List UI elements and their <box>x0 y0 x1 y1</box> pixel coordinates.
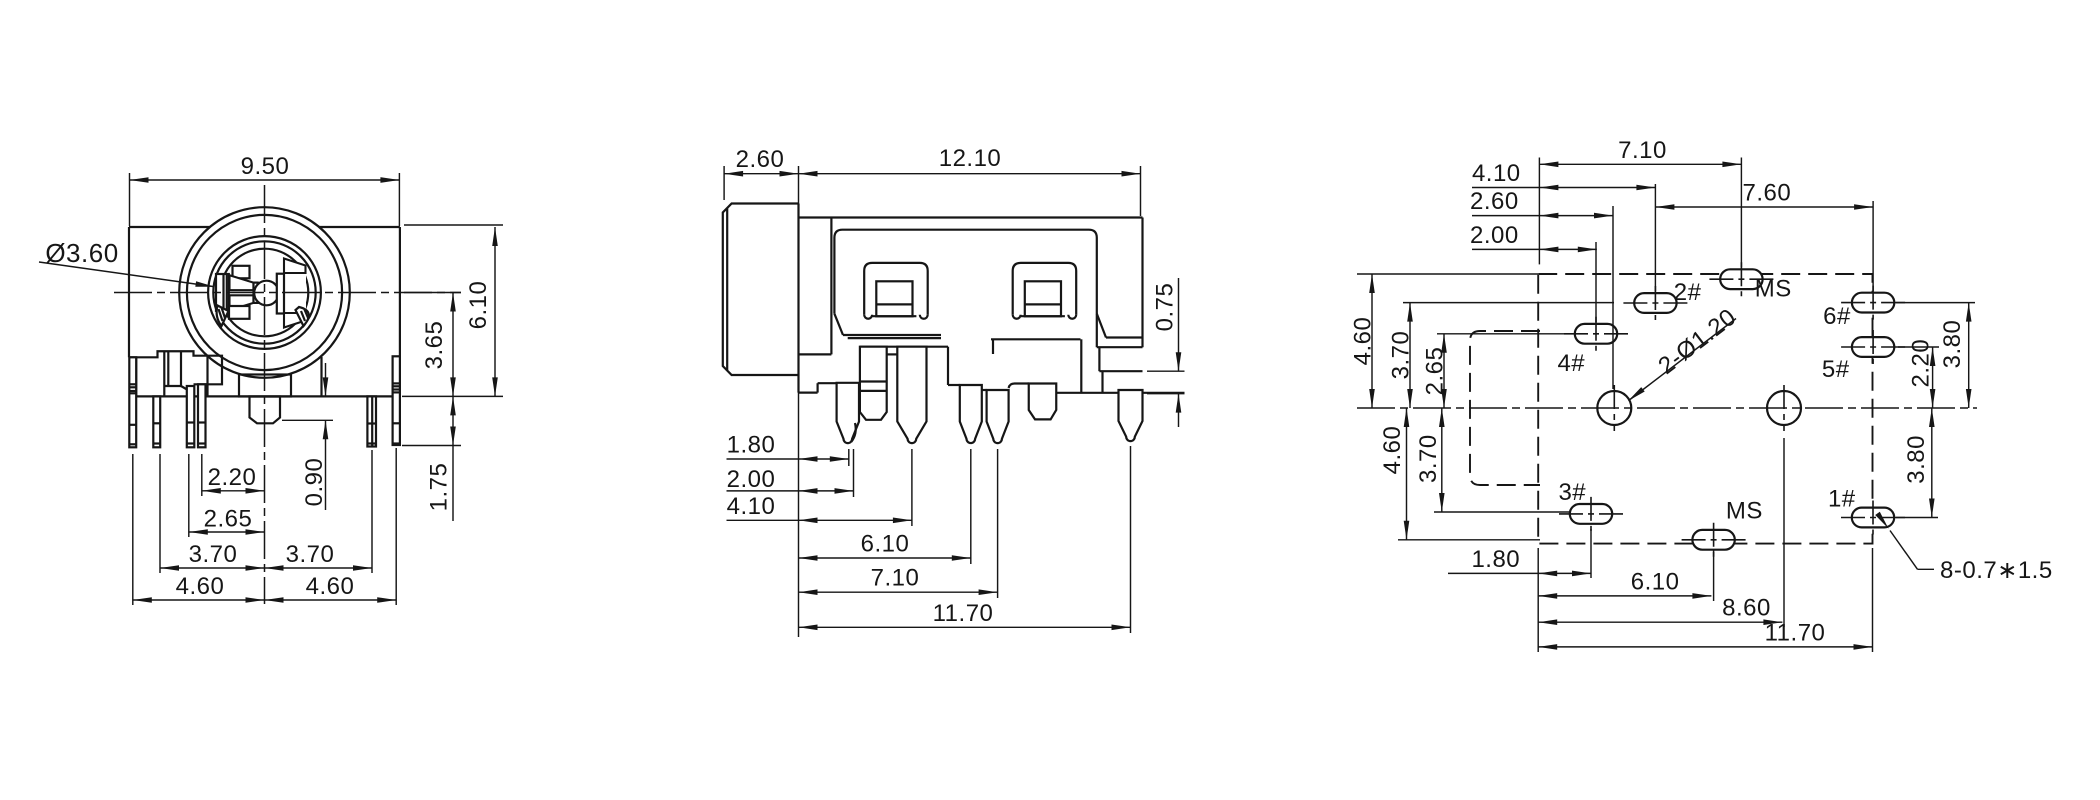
svg-text:6.10: 6.10 <box>465 281 492 330</box>
right contact upper block <box>284 259 306 274</box>
left extension lines <box>1357 273 1538 275</box>
dim 2.20 <box>1932 347 1934 408</box>
svg-text:2.20: 2.20 <box>208 464 257 491</box>
dim 3.70 left / 3.70 right <box>160 567 372 569</box>
center boss <box>239 375 291 397</box>
svg-text:3.80: 3.80 <box>1903 435 1930 484</box>
svg-text:4.60: 4.60 <box>1379 426 1406 475</box>
pad 4# <box>1575 324 1617 344</box>
pad 3# <box>1570 504 1612 524</box>
left contact upper support <box>233 266 250 279</box>
svg-text:3.70: 3.70 <box>1388 331 1415 380</box>
shield inner circle <box>187 215 342 370</box>
footprint outline (dashed) <box>1538 274 1872 544</box>
pin leg far-left <box>129 357 136 447</box>
pin leg inner-left A <box>187 386 195 447</box>
rear shoulder line <box>1056 392 1118 394</box>
svg-text:1.80: 1.80 <box>727 432 776 459</box>
pin 4 (side) <box>987 390 1009 443</box>
svg-text:MS: MS <box>1726 498 1763 525</box>
svg-text:1#: 1# <box>1828 486 1856 513</box>
left contact upper finger <box>230 275 254 290</box>
dim 6.10 (height) <box>494 227 496 396</box>
pad 6# <box>1852 293 1894 313</box>
svg-text:4.60: 4.60 <box>1350 317 1377 366</box>
svg-text:11.70: 11.70 <box>1765 619 1826 646</box>
side body outline <box>799 216 1143 218</box>
dim 2.65 <box>189 531 265 533</box>
svg-text:8.60: 8.60 <box>1722 595 1771 622</box>
bottom extension lines <box>132 454 134 605</box>
shelf line A <box>887 353 898 355</box>
top extension lines <box>1538 158 1540 265</box>
barrel (side view) <box>723 204 799 376</box>
dim 7.10 <box>1539 163 1741 165</box>
svg-text:9.50: 9.50 <box>241 153 290 180</box>
svg-text:MS: MS <box>1755 276 1792 303</box>
center pin socket (ball) <box>254 281 279 306</box>
dim 8.60 <box>1538 621 1782 623</box>
svg-text:6.10: 6.10 <box>1631 568 1680 595</box>
dim 11.70 <box>799 626 1131 628</box>
dim 2.60 <box>1472 215 1613 217</box>
svg-text:8-0.7∗1.5: 8-0.7∗1.5 <box>1940 557 2053 584</box>
datum extension line <box>798 166 800 637</box>
dim 11.70 <box>1538 646 1872 648</box>
svg-text:Ø3.60: Ø3.60 <box>45 238 118 268</box>
left contact barrel (3.60 dia) <box>216 274 229 311</box>
svg-text:4.60: 4.60 <box>306 573 355 600</box>
svg-text:1.80: 1.80 <box>1471 546 1520 573</box>
svg-text:4.10: 4.10 <box>727 493 776 520</box>
front body outline <box>129 226 210 228</box>
svg-text:4.60: 4.60 <box>176 573 225 600</box>
svg-text:5#: 5# <box>1822 356 1850 383</box>
dim 4.10 <box>727 519 912 521</box>
left contact lower support <box>229 306 250 319</box>
dim 4.10 <box>1472 187 1655 189</box>
valley step <box>947 347 949 385</box>
dim 1.75 <box>452 396 454 521</box>
center stub pin <box>1029 384 1057 420</box>
dim 4.60 bottom <box>1406 408 1408 540</box>
label 2-1.20 dia with leader <box>1630 319 1736 400</box>
barrel outline (dashed) <box>1470 331 1540 485</box>
left contact wedge (hatched) <box>217 306 229 327</box>
pad 2# <box>1634 293 1676 313</box>
svg-text:7.60: 7.60 <box>1743 180 1792 207</box>
dim 4.60 left / 4.60 right <box>133 599 396 601</box>
pin leg mid-left <box>153 396 160 447</box>
svg-text:1.75: 1.75 <box>425 463 452 512</box>
dim 0.75 <box>1147 370 1185 372</box>
label 8-0.7x1.5 with leader <box>1918 568 1935 570</box>
housing bottom edge <box>136 395 392 397</box>
plateau between pins 3-4 <box>982 389 987 391</box>
socket bore circle <box>208 236 321 349</box>
dim 12.10 (body length) <box>1140 166 1142 216</box>
left contact lower finger <box>230 295 254 310</box>
shield left seam <box>206 357 208 397</box>
svg-text:3.70: 3.70 <box>286 541 335 568</box>
right extension lines <box>404 224 503 226</box>
front flange step <box>799 392 818 394</box>
pin 3 (side) <box>960 385 982 443</box>
bottom extension lines <box>1590 529 1592 578</box>
contact base block A <box>860 347 887 420</box>
dim 9.50 (front view overall width) <box>129 173 131 226</box>
svg-text:3.70: 3.70 <box>189 541 238 568</box>
pad MS top <box>1720 269 1762 289</box>
insert inner circle <box>221 249 309 337</box>
svg-text:7.10: 7.10 <box>1618 137 1667 164</box>
horizontal centerline <box>1357 407 1977 409</box>
right contact bar <box>285 272 307 314</box>
pin 2 (side) <box>897 347 926 443</box>
dim 6.10 (pin pitch) <box>799 557 971 559</box>
dim 1.80 <box>727 458 849 460</box>
svg-text:2.60: 2.60 <box>736 146 785 173</box>
svg-text:2.00: 2.00 <box>727 466 776 493</box>
pin leg far-right <box>393 356 400 445</box>
dim 6.10 <box>1538 595 1711 597</box>
mounting hole right (1.20 dia) <box>1767 391 1801 425</box>
dim 3.80 top <box>1968 303 1970 408</box>
insert ring circle <box>213 241 315 343</box>
mounting hole left (1.20 dia) <box>1597 391 1631 425</box>
right extension lines <box>1896 302 1975 304</box>
svg-text:3.80: 3.80 <box>1939 320 1966 369</box>
svg-text:7.10: 7.10 <box>871 565 920 592</box>
vertical centerline <box>264 185 266 604</box>
pad 5# <box>1852 337 1894 357</box>
dim 2.00 <box>727 490 854 492</box>
horizontal centerline <box>114 292 461 294</box>
svg-text:3#: 3# <box>1558 479 1586 506</box>
right contact wedge (hatched) <box>296 307 309 326</box>
dim 3.70 top <box>1409 303 1411 408</box>
pin extension lines <box>848 449 850 466</box>
left contact tip bar <box>254 283 258 303</box>
dim 2.65 top <box>1443 334 1445 408</box>
dim 0.90 <box>282 419 333 421</box>
dim 1.80 <box>1448 572 1591 574</box>
cavity shelf line <box>860 346 948 348</box>
center pin <box>250 397 281 424</box>
dim 2.20 <box>202 490 265 492</box>
center pin support <box>1009 384 1029 389</box>
pin 1 (side) <box>837 383 859 443</box>
dim 7.60 <box>1655 206 1873 208</box>
svg-text:2.60: 2.60 <box>1470 188 1519 215</box>
dim 3.70 bottom <box>1441 408 1443 512</box>
svg-text:11.70: 11.70 <box>933 600 994 627</box>
svg-text:2.20: 2.20 <box>1907 339 1934 388</box>
dim 2.00 <box>1472 248 1597 250</box>
contact window right <box>1013 263 1076 315</box>
contact window left <box>864 263 928 315</box>
svg-text:6#: 6# <box>1823 303 1851 330</box>
shield right seam <box>320 357 322 396</box>
svg-text:0.90: 0.90 <box>301 458 328 507</box>
svg-text:2#: 2# <box>1674 279 1702 306</box>
svg-text:6.10: 6.10 <box>861 531 910 558</box>
dim 7.10 <box>799 591 998 593</box>
shield outer circle <box>179 207 350 378</box>
pad MS bottom <box>1692 530 1734 550</box>
svg-text:2.65: 2.65 <box>204 506 253 533</box>
svg-text:4#: 4# <box>1557 350 1585 377</box>
svg-text:3.70: 3.70 <box>1415 434 1442 483</box>
pin 5 (side) <box>1119 390 1143 441</box>
svg-text:4.10: 4.10 <box>1472 160 1521 187</box>
lower-left housing steps <box>129 351 222 384</box>
right contact lower block <box>284 313 306 328</box>
rear bottom block <box>1097 346 1143 348</box>
pin leg mid-right <box>367 396 376 446</box>
svg-text:2.00: 2.00 <box>1470 222 1519 249</box>
svg-text:3.65: 3.65 <box>421 321 448 370</box>
pin leg inner-left B <box>198 384 206 447</box>
svg-text:12.10: 12.10 <box>939 145 1002 172</box>
dim 3.65 <box>452 293 454 397</box>
svg-text:0.75: 0.75 <box>1151 283 1178 332</box>
svg-text:2.65: 2.65 <box>1422 347 1449 396</box>
dim 2.60 (barrel length) <box>723 166 725 200</box>
dim 4.60 top <box>1371 274 1373 408</box>
pad 1# <box>1852 508 1894 528</box>
dim 3.80 bottom <box>1931 408 1933 518</box>
